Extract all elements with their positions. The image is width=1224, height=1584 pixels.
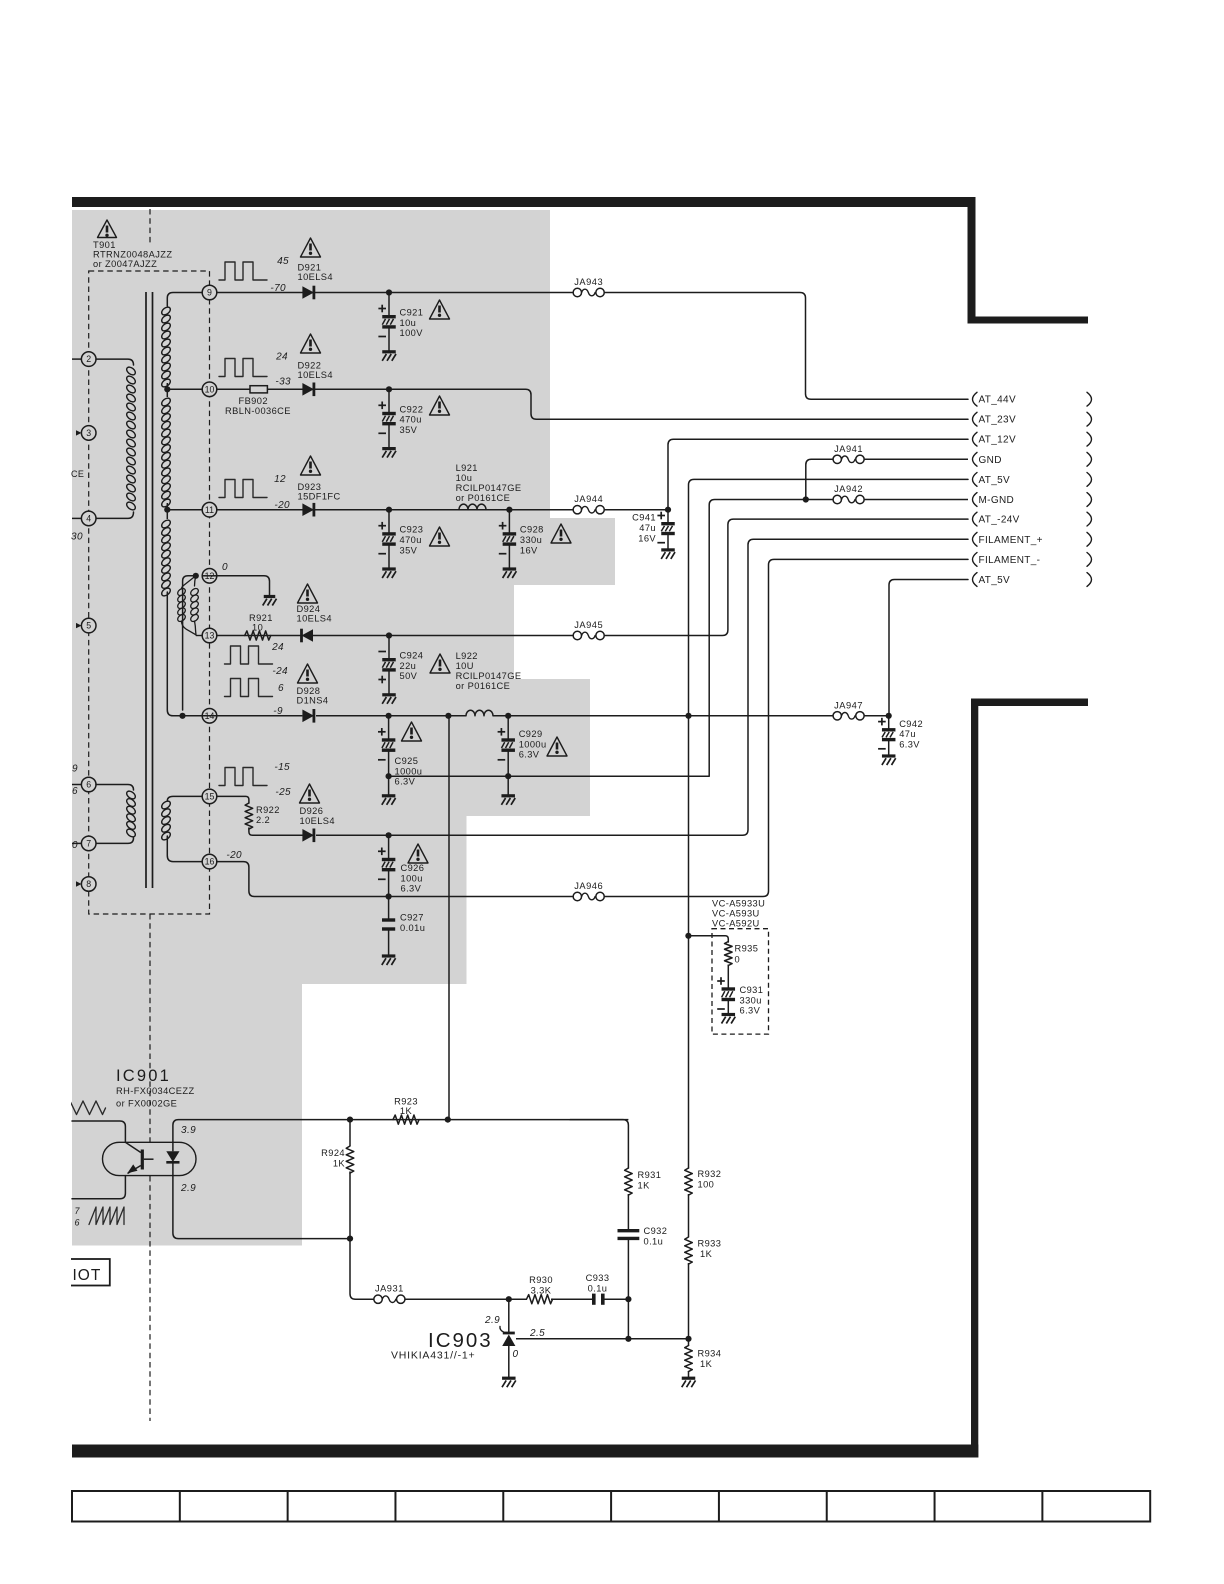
node C926	[386, 832, 392, 838]
svg-text:C941: C941	[632, 513, 656, 523]
svg-text:6: 6	[278, 683, 284, 694]
svg-text:6: 6	[72, 786, 78, 797]
svg-text:RTRNZ0048AJZZ: RTRNZ0048AJZZ	[93, 250, 172, 260]
capacitor C942	[888, 716, 890, 730]
capacitor C928	[508, 510, 510, 534]
rail pin 16 wire	[217, 862, 573, 897]
svg-text:470u: 470u	[400, 415, 422, 425]
connector AT_-24V	[973, 512, 978, 526]
page border top-right vertical	[968, 197, 976, 324]
svg-text:24: 24	[275, 352, 288, 363]
svg-text:R931: R931	[638, 1170, 662, 1180]
jumper JA941	[833, 455, 841, 463]
svg-text:D923: D923	[298, 482, 322, 492]
svg-text:2: 2	[86, 354, 91, 364]
svg-text:6.3V: 6.3V	[519, 750, 540, 760]
svg-text:or P0161CE: or P0161CE	[456, 493, 511, 503]
svg-text:IC901: IC901	[116, 1067, 171, 1085]
wire to R935	[688, 936, 728, 942]
page border lower-right vertical	[971, 699, 978, 1458]
diode D926	[302, 829, 314, 842]
svg-text:11: 11	[205, 505, 214, 515]
svg-text:RCILP0147GE: RCILP0147GE	[456, 483, 522, 493]
svg-text:12: 12	[274, 474, 286, 485]
node sense bottom	[445, 1117, 451, 1123]
node R924 bottom	[347, 1236, 353, 1242]
resistor R924	[349, 1120, 351, 1146]
svg-text:R932: R932	[698, 1169, 722, 1179]
svg-text:R924: R924	[321, 1148, 345, 1158]
svg-text:VC-A5933U: VC-A5933U	[712, 899, 765, 909]
wire GND row	[806, 459, 838, 499]
svg-text:JA942: JA942	[834, 484, 863, 494]
warning triangle D922	[301, 334, 321, 353]
connector AT_5V	[973, 573, 978, 587]
svg-text:6.3V: 6.3V	[401, 884, 422, 894]
svg-text:C928: C928	[520, 525, 544, 535]
svg-text:-70: -70	[270, 283, 286, 294]
R934 ground	[682, 1377, 696, 1380]
warning triangle D924	[298, 584, 318, 603]
svg-text:0: 0	[72, 840, 78, 851]
svg-text:L922: L922	[456, 651, 478, 661]
svg-text:35V: 35V	[400, 545, 418, 555]
capacitor C923	[388, 510, 390, 534]
pin 11	[202, 502, 217, 517]
resistor R921	[245, 631, 271, 640]
svg-text:35V: 35V	[400, 425, 418, 435]
svg-text:RH-FX0034CEZZ: RH-FX0034CEZZ	[116, 1086, 195, 1096]
pin 14	[202, 709, 217, 724]
warning triangle D923	[301, 456, 321, 475]
svg-text:3.9: 3.9	[181, 1125, 196, 1136]
IC903 ground	[502, 1377, 516, 1380]
svg-text:47u: 47u	[899, 729, 916, 739]
node R924 top	[347, 1117, 353, 1123]
svg-text:or FX0002GE: or FX0002GE	[116, 1099, 177, 1109]
wire AT_12V riser	[668, 439, 968, 510]
svg-text:0.01u: 0.01u	[400, 923, 425, 933]
jumper JA947	[833, 712, 841, 720]
svg-text:C926: C926	[401, 863, 425, 873]
rail D926 wire	[316, 834, 389, 836]
pin 2	[72, 358, 81, 360]
LED anode riser	[173, 1120, 350, 1143]
secondary winding 15-16	[167, 796, 202, 801]
sawtooth waveform icon	[89, 1207, 124, 1225]
node C921	[386, 289, 392, 295]
svg-text:1K: 1K	[700, 1359, 713, 1369]
shaded circuit region	[72, 210, 615, 1246]
svg-text:330u: 330u	[740, 995, 762, 1005]
svg-text:50V: 50V	[400, 671, 418, 681]
pin 5	[76, 623, 82, 628]
wire FILAMENT_- riser	[604, 559, 968, 896]
svg-text:JA943: JA943	[574, 277, 603, 287]
capacitor C924	[388, 636, 390, 660]
ground rail C925 C929	[389, 775, 710, 777]
svg-text:C929: C929	[519, 729, 543, 739]
svg-text:6.3V: 6.3V	[899, 739, 920, 749]
svg-text:C924: C924	[400, 651, 424, 661]
svg-text:IOT: IOT	[73, 1267, 102, 1284]
svg-text:10u: 10u	[400, 318, 417, 328]
resistor R923	[393, 1115, 419, 1124]
svg-text:0: 0	[222, 562, 228, 573]
node C923	[386, 507, 392, 513]
svg-text:D926: D926	[300, 806, 324, 816]
resistor R932	[685, 1168, 693, 1195]
pin 9	[202, 285, 217, 300]
capacitor C921	[388, 293, 390, 317]
rail pin 9 wire	[217, 292, 573, 294]
svg-text:C942: C942	[899, 719, 923, 729]
svg-text:100u: 100u	[401, 873, 423, 883]
jumper JA946	[573, 892, 581, 900]
secondary winding 9-10	[160, 306, 172, 317]
svg-text:JA941: JA941	[834, 444, 863, 454]
svg-text:16: 16	[205, 857, 215, 867]
warning triangle D928	[298, 664, 318, 683]
resistor R935	[725, 942, 733, 966]
node bus AT_5V on rail14	[685, 713, 691, 719]
svg-text:RCILP0147GE: RCILP0147GE	[456, 671, 522, 681]
waveform icon pin 11	[219, 480, 267, 498]
bus down to ref rail	[688, 1263, 690, 1339]
waveform icon pin 9	[219, 262, 267, 280]
svg-text:9: 9	[207, 288, 212, 298]
svg-text:22u: 22u	[400, 661, 417, 671]
svg-text:D928: D928	[297, 686, 321, 696]
svg-text:2.2: 2.2	[256, 815, 270, 825]
svg-text:D921: D921	[298, 263, 322, 273]
wire C932 node to ref rail	[627, 1299, 629, 1339]
svg-text:R934: R934	[698, 1349, 722, 1359]
inductor L922	[466, 710, 493, 716]
IC901 optocoupler body	[103, 1142, 197, 1175]
svg-text:VHIKIA431//-1+: VHIKIA431//-1+	[391, 1350, 475, 1362]
resistor R933	[685, 1237, 693, 1264]
svg-text:100V: 100V	[400, 328, 424, 338]
primary winding 2-4	[125, 366, 137, 377]
svg-text:C931: C931	[740, 985, 764, 995]
inductor L921	[459, 504, 486, 510]
dashed center line above T901	[149, 209, 151, 244]
node C928	[506, 507, 512, 513]
resistor R934	[688, 1339, 690, 1346]
svg-text:JA947: JA947	[834, 700, 863, 710]
svg-text:D922: D922	[298, 361, 322, 371]
wire M-GND row	[709, 500, 837, 777]
ground below C929	[507, 776, 509, 796]
connector M-GND	[973, 493, 978, 507]
transformer T901 dashed box	[89, 271, 210, 914]
pin 7	[72, 842, 81, 844]
svg-text:6: 6	[75, 1218, 80, 1228]
svg-text:1K: 1K	[333, 1159, 346, 1169]
svg-text:C927: C927	[400, 913, 424, 923]
svg-text:GND: GND	[979, 455, 1002, 466]
svg-text:L921: L921	[456, 463, 478, 473]
rail pin 13 wire	[217, 635, 302, 637]
pin 13	[202, 628, 217, 643]
wire collector from page edge	[72, 1121, 125, 1143]
ground below C925	[388, 776, 390, 796]
svg-text:FILAMENT_-: FILAMENT_-	[979, 555, 1041, 566]
svg-text:AT_23V: AT_23V	[979, 415, 1017, 426]
capacitor C931	[727, 965, 729, 990]
svg-text:1K: 1K	[638, 1181, 651, 1191]
svg-text:10u: 10u	[456, 473, 473, 483]
svg-text:8: 8	[86, 879, 91, 889]
svg-text:AT_-24V: AT_-24V	[979, 515, 1020, 526]
connector AT_44V	[973, 392, 978, 406]
svg-text:2.9: 2.9	[484, 1315, 500, 1326]
svg-text:6.3V: 6.3V	[395, 777, 416, 787]
svg-text:7: 7	[75, 1206, 81, 1216]
fuse bead FB902	[250, 386, 267, 393]
ground pin12	[264, 595, 276, 598]
pin 15	[202, 789, 217, 804]
diode D928	[302, 710, 314, 723]
resistor R922 leg	[245, 803, 253, 829]
svg-text:10ELS4: 10ELS4	[298, 370, 333, 380]
svg-text:R935: R935	[735, 944, 759, 954]
secondary winding 12-13 bifilar	[182, 576, 196, 589]
ref rail 2.5	[516, 1338, 689, 1340]
transformer core	[145, 292, 147, 888]
node pin14 left	[179, 713, 185, 719]
connector AT_23V	[973, 412, 978, 426]
wire pin12 node to down-bus	[183, 576, 196, 710]
T901 warning symbol	[98, 220, 117, 238]
node C942	[886, 713, 892, 719]
svg-text:FB902: FB902	[239, 396, 268, 406]
svg-text:JA944: JA944	[574, 494, 603, 504]
svg-text:6.3V: 6.3V	[740, 1006, 761, 1016]
warning triangle D926	[300, 784, 320, 803]
capacitor C929	[507, 716, 509, 740]
svg-text:1000u: 1000u	[519, 739, 547, 749]
capacitor C926	[388, 835, 390, 859]
svg-text:R923: R923	[394, 1097, 418, 1107]
svg-text:AT_5V: AT_5V	[979, 575, 1011, 586]
connector AT_12V	[973, 432, 978, 446]
connector FILAMENT_-	[973, 553, 978, 567]
svg-text:VC-A592U: VC-A592U	[712, 919, 760, 929]
triangle waveform icon	[70, 1101, 106, 1115]
page border top bar	[72, 197, 976, 207]
jumper JA945	[573, 631, 581, 639]
wire primary coil to pin4	[96, 512, 134, 518]
pin 10	[202, 382, 217, 397]
connector FILAMENT_+	[973, 532, 978, 546]
capacitor C933	[592, 1294, 596, 1305]
svg-text:or Z0047AJZZ: or Z0047AJZZ	[93, 259, 157, 269]
svg-text:AT_44V: AT_44V	[979, 395, 1017, 406]
svg-text:9: 9	[72, 764, 78, 775]
node IC903 cathode	[506, 1296, 512, 1302]
svg-text:10ELS4: 10ELS4	[297, 614, 332, 624]
VC dashed box	[712, 929, 769, 1034]
svg-text:7: 7	[86, 839, 91, 849]
svg-text:4: 4	[86, 514, 91, 524]
wire secondary top to pin 9 rail	[167, 293, 202, 307]
svg-text:RBLN-0036CE: RBLN-0036CE	[225, 406, 291, 416]
JA941 drop leg	[803, 496, 809, 502]
pin 6	[72, 784, 81, 786]
jumper JA944	[573, 506, 581, 514]
svg-text:C925: C925	[395, 756, 419, 766]
svg-text:10: 10	[205, 384, 215, 394]
svg-text:24: 24	[271, 642, 284, 653]
svg-text:0.1u: 0.1u	[588, 1284, 608, 1294]
svg-text:AT_12V: AT_12V	[979, 435, 1017, 446]
warning triangle D921	[301, 238, 321, 257]
node secondary pin10	[164, 386, 170, 392]
capacitor C932	[627, 1194, 629, 1229]
svg-text:2.5: 2.5	[529, 1328, 545, 1339]
svg-text:13: 13	[205, 631, 215, 641]
svg-text:JA945: JA945	[574, 620, 603, 630]
rail pin 11 wire	[217, 509, 573, 511]
wire JA943 to AT_44V corner	[604, 293, 968, 400]
node secondary pin11	[164, 507, 170, 513]
IC903 shunt regulator	[508, 1299, 510, 1332]
page border top-right stub	[968, 317, 1089, 324]
wire primary coil2 to pin7	[96, 838, 134, 843]
svg-text:JA931: JA931	[375, 1284, 404, 1294]
wire pin2 to primary coil	[96, 359, 134, 365]
svg-text:10U: 10U	[456, 661, 474, 671]
svg-text:5: 5	[86, 621, 91, 631]
rail pin 12 wire	[202, 575, 217, 577]
rail pin 14 wire	[183, 715, 303, 717]
R931 leg from R923 rail	[570, 1120, 628, 1168]
svg-text:D1NS4: D1NS4	[297, 696, 329, 706]
svg-text:100: 100	[698, 1180, 715, 1190]
svg-text:VC-A593U: VC-A593U	[712, 909, 760, 919]
svg-text:-15: -15	[274, 762, 290, 773]
svg-text:-20: -20	[226, 850, 242, 861]
svg-text:-24: -24	[272, 666, 288, 677]
jumper JA942	[833, 495, 841, 503]
svg-text:-33: -33	[275, 377, 291, 388]
node C926 bottom	[386, 893, 392, 899]
svg-text:15: 15	[205, 792, 215, 802]
diode D921	[302, 286, 314, 299]
node C925	[386, 713, 392, 719]
jumper JA931	[374, 1295, 382, 1303]
svg-text:D924: D924	[297, 604, 321, 614]
title block table	[72, 1491, 1150, 1522]
svg-text:M-GND: M-GND	[979, 495, 1015, 506]
diode D923	[302, 503, 314, 516]
rail pin 10 wire	[217, 388, 389, 390]
resistor R931	[625, 1168, 633, 1195]
node sense line	[445, 713, 451, 719]
node C922	[386, 386, 392, 392]
svg-text:C932: C932	[644, 1226, 668, 1236]
svg-text:AT_5V: AT_5V	[979, 475, 1011, 486]
waveform icon pin 13	[225, 646, 273, 664]
svg-text:R933: R933	[698, 1239, 722, 1249]
resistor R930	[527, 1295, 553, 1304]
svg-text:0: 0	[513, 1349, 519, 1360]
jumper JA943	[573, 288, 581, 296]
pin 8	[76, 881, 82, 886]
wire AT_-24V riser	[604, 519, 968, 635]
svg-text:C923: C923	[400, 525, 424, 535]
svg-text:15DF1FC: 15DF1FC	[298, 492, 341, 502]
wire AT_5V bottom riser	[889, 580, 968, 716]
svg-text:0.1u: 0.1u	[644, 1237, 664, 1247]
waveform icon pin 14	[225, 679, 273, 697]
node C932 bottom	[625, 1296, 631, 1302]
rail R923	[350, 1119, 628, 1121]
svg-text:JA946: JA946	[574, 881, 603, 891]
svg-text:30: 30	[71, 532, 83, 543]
svg-text:FILAMENT_+: FILAMENT_+	[979, 535, 1043, 546]
svg-text:CE: CE	[71, 469, 84, 479]
opto emitter wire	[72, 1176, 125, 1199]
pin 3	[76, 430, 82, 435]
svg-text:16V: 16V	[520, 545, 538, 555]
svg-text:R930: R930	[529, 1275, 553, 1285]
svg-text:16V: 16V	[638, 533, 656, 543]
pin 12	[202, 569, 217, 584]
node C924	[386, 632, 392, 638]
wire AT_23V corner	[389, 389, 968, 419]
svg-text:C933: C933	[586, 1273, 610, 1283]
svg-text:or P0161CE: or P0161CE	[456, 681, 511, 691]
svg-text:10ELS4: 10ELS4	[298, 272, 333, 282]
svg-text:6: 6	[86, 780, 91, 790]
LED cathode wire	[173, 1176, 350, 1239]
wire pin6 to primary coil2	[96, 785, 134, 791]
svg-text:C921: C921	[400, 308, 424, 318]
capacitor C941	[667, 510, 669, 524]
capacitor C927	[388, 897, 390, 921]
waveform icon pin 15	[219, 768, 267, 786]
wire FILAMENT_+ riser	[389, 539, 968, 835]
svg-text:C922: C922	[400, 404, 424, 414]
svg-text:330u: 330u	[520, 535, 542, 545]
svg-text:-20: -20	[274, 500, 290, 511]
svg-text:-25: -25	[275, 787, 291, 798]
pin 4	[72, 517, 81, 519]
svg-text:R922: R922	[256, 805, 280, 815]
svg-text:0: 0	[735, 955, 741, 965]
pin 16	[202, 854, 217, 869]
capacitor C922	[388, 389, 390, 413]
page border lower-right stub	[971, 699, 1088, 707]
svg-text:45: 45	[277, 256, 289, 267]
IOT box	[66, 1259, 110, 1286]
page border bottom bar	[72, 1445, 978, 1458]
opto LED	[172, 1142, 174, 1151]
svg-text:470u: 470u	[400, 535, 422, 545]
capacitor C925	[388, 716, 390, 740]
rail JA931	[405, 1298, 509, 1300]
bus AT_5V vertical	[689, 479, 969, 1168]
node R935 branch	[685, 933, 691, 939]
svg-text:2.9: 2.9	[180, 1183, 196, 1194]
opto transistor	[141, 1150, 144, 1170]
secondary winding 11-14	[166, 510, 168, 519]
connector AT_5V	[973, 473, 978, 487]
secondary bus 9-10 to node	[166, 383, 168, 389]
